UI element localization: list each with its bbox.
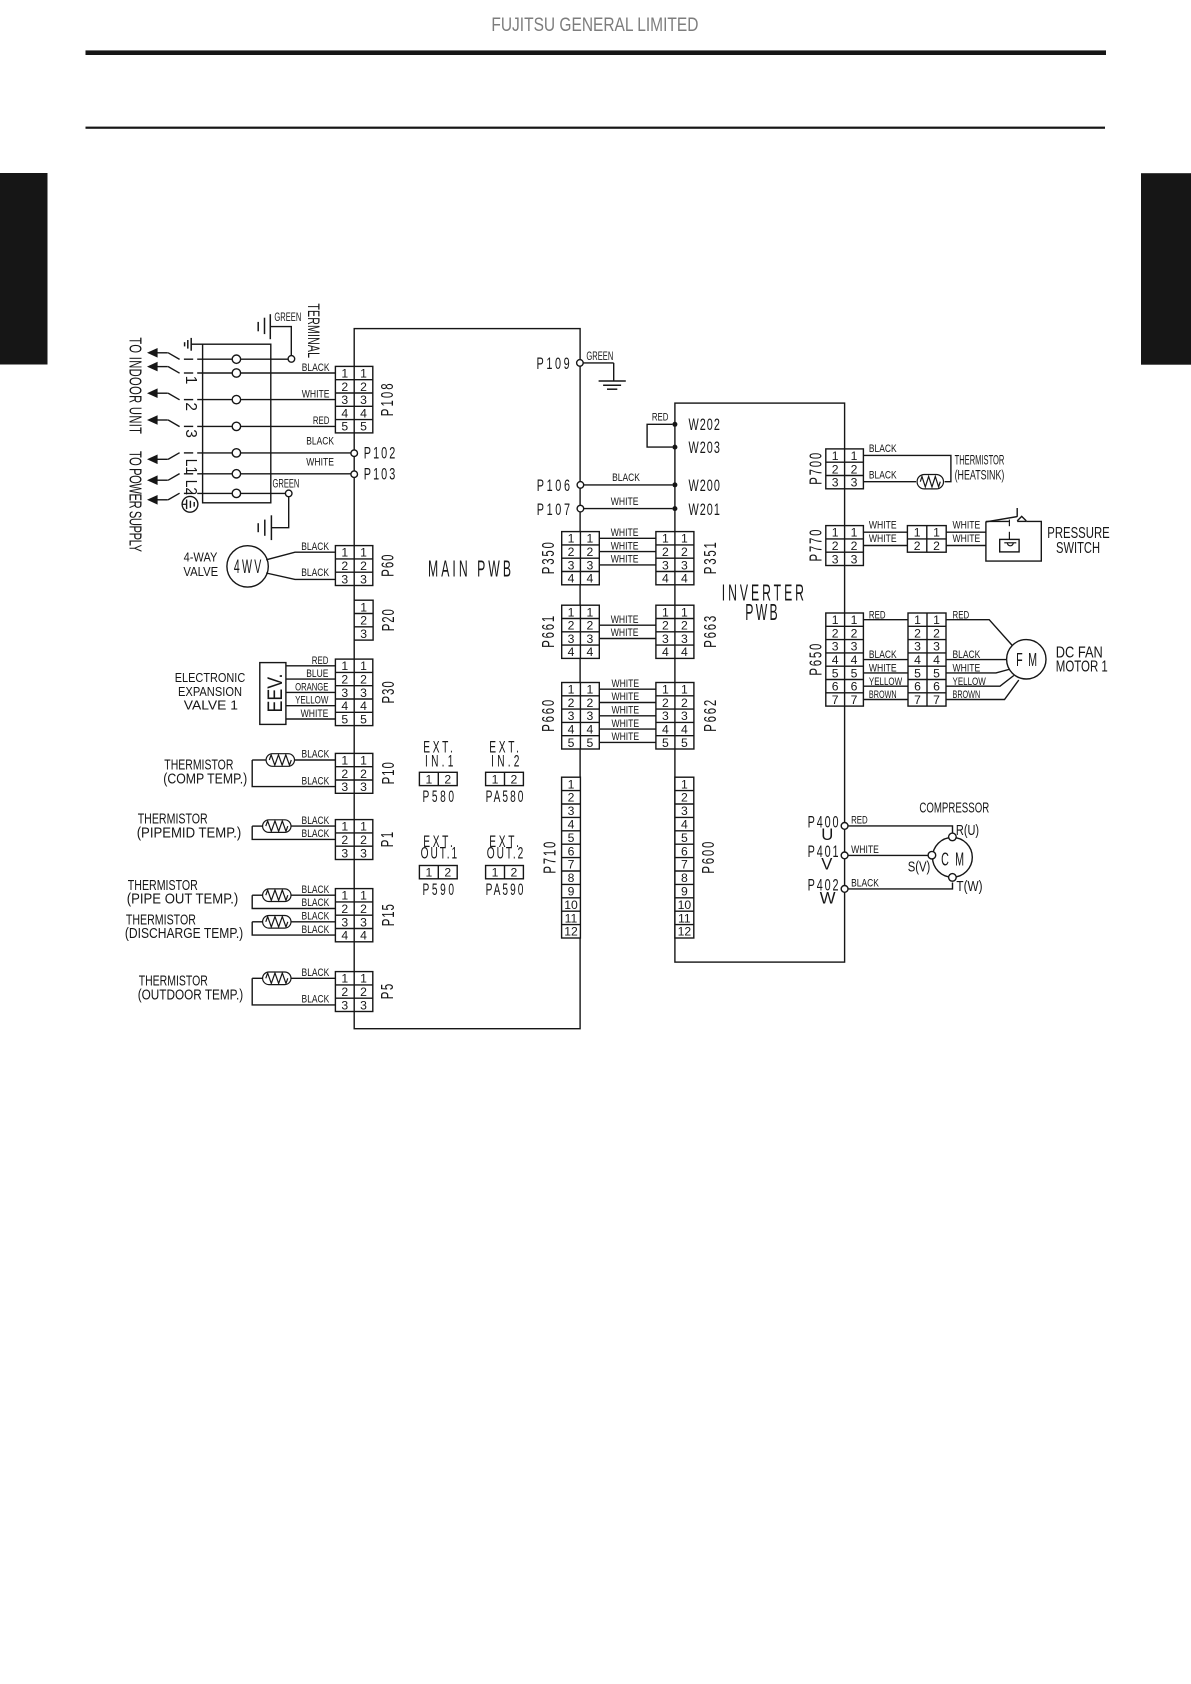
svg-text:2: 2: [586, 545, 593, 559]
INVERTER PWB board outline: [675, 403, 845, 962]
svg-text:2: 2: [341, 380, 348, 394]
svg-text:2: 2: [444, 772, 451, 786]
svg-text:P30: P30: [380, 681, 399, 703]
svg-text:7: 7: [832, 693, 839, 707]
svg-text:T(W): T(W): [956, 879, 982, 895]
svg-text:RED: RED: [652, 412, 669, 424]
svg-text:WHITE: WHITE: [869, 533, 897, 545]
svg-text:THERMISTOR: THERMISTOR: [955, 451, 1005, 467]
svg-text:VALVE: VALVE: [183, 565, 218, 579]
wires P350 to P351 WHITE x3: [599, 537, 656, 539]
svg-text:3: 3: [341, 846, 348, 860]
jumper wire RED W202-W203: [647, 424, 672, 447]
svg-text:2: 2: [832, 626, 839, 640]
svg-text:5: 5: [681, 831, 688, 845]
wire P107 to W201 WHITE: [584, 508, 673, 510]
connector P662: [656, 683, 694, 750]
svg-text:WHITE: WHITE: [953, 663, 981, 675]
node W201: [672, 506, 677, 511]
svg-text:2: 2: [832, 462, 839, 476]
svg-text:4: 4: [568, 722, 575, 736]
svg-text:1: 1: [851, 449, 858, 463]
svg-text:3: 3: [832, 476, 839, 490]
earth symbol bottom GREEN: [270, 515, 272, 540]
svg-text:3: 3: [568, 558, 575, 572]
svg-text:FUJITSU GENERAL LIMITED: FUJITSU GENERAL LIMITED: [491, 15, 698, 36]
svg-text:WHITE: WHITE: [611, 718, 639, 730]
svg-text:2: 2: [341, 559, 348, 573]
svg-text:1: 1: [341, 820, 348, 834]
svg-text:2: 2: [341, 672, 348, 686]
svg-text:7: 7: [568, 858, 575, 872]
svg-text:WHITE: WHITE: [611, 731, 639, 743]
node P401 V: [841, 852, 848, 859]
svg-text:2: 2: [360, 985, 367, 999]
thermistor (PIPE OUT TEMP.) circuit: [291, 894, 335, 896]
svg-text:W: W: [820, 888, 836, 907]
svg-text:1: 1: [360, 546, 367, 560]
svg-text:2: 2: [933, 539, 940, 553]
svg-text:1: 1: [341, 753, 348, 767]
svg-text:1: 1: [586, 532, 593, 546]
svg-text:5: 5: [832, 666, 839, 680]
svg-text:1: 1: [182, 376, 199, 385]
svg-text:BLACK: BLACK: [869, 469, 897, 481]
connector P663: [656, 605, 694, 659]
svg-text:SWITCH: SWITCH: [1056, 540, 1100, 557]
svg-text:MOTOR 1: MOTOR 1: [1056, 659, 1108, 676]
svg-text:7: 7: [681, 858, 688, 872]
svg-text:WHITE: WHITE: [611, 705, 639, 717]
svg-text:1: 1: [681, 532, 688, 546]
svg-text:2: 2: [360, 833, 367, 847]
svg-text:10: 10: [678, 898, 692, 912]
svg-text:4: 4: [662, 645, 669, 659]
svg-text:1: 1: [360, 889, 367, 903]
svg-text:6: 6: [851, 680, 858, 694]
svg-text:L2: L2: [182, 480, 199, 495]
svg-text:1: 1: [832, 449, 839, 463]
svg-text:2: 2: [511, 772, 518, 786]
svg-text:3: 3: [851, 552, 858, 566]
svg-text:2: 2: [662, 545, 669, 559]
connector P770: [826, 526, 864, 567]
svg-text:1: 1: [681, 777, 688, 791]
thermistor (PIPEMID TEMP.) circuit: [291, 825, 335, 827]
svg-text:WHITE: WHITE: [611, 614, 639, 626]
svg-text:3: 3: [341, 915, 348, 929]
svg-text:BLACK: BLACK: [302, 911, 330, 923]
wire terminal row earth-top to GREEN circle: [184, 358, 193, 360]
svg-text:2: 2: [851, 462, 858, 476]
svg-text:10: 10: [564, 898, 578, 912]
svg-text:4: 4: [914, 653, 921, 667]
svg-text:RED: RED: [953, 609, 970, 621]
svg-text:5: 5: [681, 736, 688, 750]
svg-text:GREEN: GREEN: [273, 478, 300, 490]
svg-text:6: 6: [568, 844, 575, 858]
svg-text:3: 3: [662, 632, 669, 646]
svg-text:1: 1: [360, 600, 367, 614]
svg-text:2: 2: [832, 539, 839, 553]
svg-text:V: V: [821, 854, 833, 873]
wires EEV to P30 pins 1-5: [286, 665, 336, 667]
svg-text:2: 2: [568, 696, 575, 710]
svg-text:3: 3: [341, 780, 348, 794]
svg-text:1: 1: [914, 613, 921, 627]
svg-text:3: 3: [933, 640, 940, 654]
svg-text:1: 1: [851, 613, 858, 627]
svg-text:(DISCHARGE TEMP.): (DISCHARGE TEMP.): [125, 926, 243, 942]
svg-text:5: 5: [568, 736, 575, 750]
wires P770 to pressure switch WHITE x2: [863, 531, 907, 533]
wires inline connector to FM: [946, 620, 1012, 646]
svg-text:BLACK: BLACK: [869, 443, 897, 455]
svg-text:WHITE: WHITE: [611, 678, 639, 690]
thermistor (DISCHARGE TEMP.) circuit: [291, 921, 335, 923]
svg-text:ELECTRONIC: ELECTRONIC: [175, 671, 246, 685]
svg-text:(COMP TEMP.): (COMP TEMP.): [163, 771, 247, 787]
svg-text:3: 3: [681, 558, 688, 572]
connector P5: [335, 972, 372, 1013]
svg-text:1: 1: [933, 526, 940, 540]
svg-text:1: 1: [341, 366, 348, 380]
connector P660: [562, 683, 600, 750]
svg-text:3: 3: [568, 804, 575, 818]
svg-text:8: 8: [681, 871, 688, 885]
svg-text:5: 5: [914, 666, 921, 680]
svg-text:4: 4: [851, 653, 858, 667]
wire P700 pin3 BLACK to heatsink thermistor: [863, 481, 916, 483]
svg-text:12: 12: [564, 925, 578, 939]
svg-text:1: 1: [662, 683, 669, 697]
svg-text:3: 3: [832, 552, 839, 566]
terminal block TERMINAL: [203, 344, 271, 503]
svg-text:3: 3: [182, 429, 199, 438]
terminal circles: [232, 355, 240, 363]
svg-text:6: 6: [681, 844, 688, 858]
connector P60: [335, 546, 372, 587]
svg-text:2: 2: [341, 985, 348, 999]
svg-text:(OUTDOOR TEMP.): (OUTDOOR TEMP.): [138, 987, 244, 1003]
svg-text:BLACK: BLACK: [302, 897, 330, 909]
svg-text:1: 1: [832, 613, 839, 627]
wire terminal row 2 to P108 pin3 WHITE: [184, 399, 193, 401]
svg-text:2: 2: [851, 539, 858, 553]
node P400 U: [841, 823, 848, 830]
svg-text:4: 4: [568, 645, 575, 659]
svg-text:BROWN: BROWN: [869, 689, 897, 701]
svg-text:3: 3: [360, 915, 367, 929]
svg-text:1: 1: [425, 772, 432, 786]
svg-text:2: 2: [341, 902, 348, 916]
node W203: [672, 445, 677, 450]
svg-text:2: 2: [914, 539, 921, 553]
svg-text:3: 3: [360, 780, 367, 794]
wire P402 BLACK to T(W): [849, 883, 953, 889]
compressor terminal R(U): [949, 833, 957, 841]
svg-text:4: 4: [568, 572, 575, 586]
pressure switch symbol: [986, 508, 1041, 561]
svg-text:7: 7: [933, 693, 940, 707]
thermistor (COMP TEMP.) circuit: [295, 759, 336, 761]
thermistor (OUTDOOR TEMP.) circuit: [291, 977, 335, 979]
svg-text:2: 2: [568, 545, 575, 559]
connector P30: [335, 659, 372, 726]
svg-text:BLACK: BLACK: [302, 828, 330, 840]
node W200: [672, 482, 677, 487]
svg-text:8: 8: [568, 871, 575, 885]
wire terminal row 3 to P108 pin5 RED: [184, 425, 193, 427]
node P402 W: [841, 886, 848, 893]
svg-text:P60: P60: [379, 555, 398, 577]
svg-text:GREEN: GREEN: [274, 312, 301, 324]
wire 4WV to P60 pin3 BLACK: [266, 573, 335, 579]
svg-text:WHITE: WHITE: [611, 540, 639, 552]
connector P661: [562, 605, 600, 659]
svg-text:WHITE: WHITE: [306, 457, 334, 469]
svg-text:3: 3: [568, 709, 575, 723]
svg-text:7: 7: [851, 693, 858, 707]
wire P400 RED to R(U): [849, 826, 953, 834]
svg-text:GREEN: GREEN: [586, 351, 613, 363]
svg-text:BLUE: BLUE: [306, 668, 328, 680]
svg-text:P15: P15: [380, 904, 399, 926]
earth symbol top GREEN: [269, 314, 271, 339]
svg-text:6: 6: [914, 680, 921, 694]
svg-text:1: 1: [492, 866, 499, 880]
svg-text:WHITE: WHITE: [869, 520, 897, 532]
svg-text:3: 3: [360, 572, 367, 586]
svg-text:3: 3: [851, 476, 858, 490]
svg-text:1: 1: [851, 526, 858, 540]
svg-text:BLACK: BLACK: [302, 815, 330, 827]
svg-text:WHITE: WHITE: [869, 663, 897, 675]
svg-text:3: 3: [586, 709, 593, 723]
switch blades and arrows TO POWER SUPPLY: [147, 455, 168, 465]
svg-text:3: 3: [586, 632, 593, 646]
svg-text:3: 3: [586, 558, 593, 572]
svg-text:P10: P10: [380, 762, 399, 784]
svg-text:TO POWER SUPPLY: TO POWER SUPPLY: [124, 451, 144, 552]
svg-text:2: 2: [662, 619, 669, 633]
svg-text:WHITE: WHITE: [611, 627, 639, 639]
svg-text:9: 9: [568, 885, 575, 899]
svg-text:4: 4: [360, 406, 367, 420]
svg-text:3: 3: [360, 998, 367, 1012]
svg-text:3: 3: [832, 640, 839, 654]
switch blades and arrows TO INDOOR UNIT: [147, 348, 168, 358]
svg-text:WHITE: WHITE: [851, 844, 879, 856]
svg-text:(HEATSINK): (HEATSINK): [955, 467, 1005, 483]
svg-text:1: 1: [341, 659, 348, 673]
header thick rule: [86, 50, 1107, 55]
svg-text:1: 1: [914, 526, 921, 540]
svg-text:2: 2: [360, 672, 367, 686]
svg-text:BLACK: BLACK: [612, 472, 640, 484]
svg-text:3: 3: [681, 804, 688, 818]
wire P401 WHITE to S(V): [849, 854, 929, 856]
svg-text:WHITE: WHITE: [611, 554, 639, 566]
wire 4WV to P60 pin1 BLACK: [266, 552, 335, 560]
svg-text:4: 4: [341, 406, 348, 420]
svg-text:WHITE: WHITE: [611, 496, 639, 508]
svg-text:3: 3: [360, 627, 367, 641]
svg-text:2: 2: [341, 767, 348, 781]
svg-text:3: 3: [341, 998, 348, 1012]
svg-text:L1: L1: [182, 459, 199, 474]
svg-text:5: 5: [360, 712, 367, 726]
svg-text:2: 2: [360, 767, 367, 781]
svg-text:R(U): R(U): [956, 823, 979, 839]
svg-text:2: 2: [444, 866, 451, 880]
svg-text:1: 1: [360, 820, 367, 834]
svg-text:BLACK: BLACK: [851, 877, 879, 889]
svg-text:4: 4: [341, 699, 348, 713]
svg-text:VALVE 1: VALVE 1: [184, 699, 238, 713]
svg-text:1: 1: [360, 366, 367, 380]
svg-text:5: 5: [851, 666, 858, 680]
svg-text:4: 4: [681, 572, 688, 586]
svg-text:WHITE: WHITE: [611, 691, 639, 703]
svg-text:YELLOW: YELLOW: [953, 676, 987, 688]
svg-text:S(V): S(V): [908, 859, 931, 875]
node P102: [351, 450, 358, 457]
svg-text:W202: W202: [689, 415, 721, 434]
svg-text:BLACK: BLACK: [869, 649, 897, 661]
wire terminal row 1 to P108 pin1 BLACK: [184, 372, 193, 374]
svg-text:5: 5: [586, 736, 593, 750]
svg-text:1: 1: [425, 866, 432, 880]
connector P1: [335, 820, 372, 861]
svg-text:4: 4: [681, 818, 688, 832]
svg-text:5: 5: [662, 736, 669, 750]
svg-text:BLACK: BLACK: [302, 967, 330, 979]
svg-text:(PIPE OUT TEMP.): (PIPE OUT TEMP.): [127, 892, 239, 908]
wire terminal row L1 to P102 BLACK: [184, 452, 193, 454]
svg-text:2: 2: [933, 626, 940, 640]
svg-text:3: 3: [341, 393, 348, 407]
svg-text:BLACK: BLACK: [302, 362, 330, 374]
svg-text:1: 1: [568, 777, 575, 791]
svg-text:2: 2: [681, 545, 688, 559]
svg-text:4: 4: [662, 572, 669, 586]
svg-text:4: 4: [586, 645, 593, 659]
svg-text:RED: RED: [312, 655, 329, 667]
svg-text:6: 6: [933, 680, 940, 694]
svg-text:4: 4: [933, 653, 940, 667]
svg-text:4: 4: [681, 722, 688, 736]
svg-text:PA580: PA580: [486, 787, 524, 805]
wire terminal row earth-bottom to GREEN circle: [184, 492, 193, 494]
svg-text:3: 3: [914, 640, 921, 654]
svg-text:BROWN: BROWN: [953, 689, 981, 701]
svg-text:BLACK: BLACK: [302, 994, 330, 1006]
svg-text:1: 1: [586, 683, 593, 697]
svg-text:BLACK: BLACK: [302, 884, 330, 896]
svg-text:2: 2: [568, 619, 575, 633]
fan motor FM DC FAN MOTOR 1: [1007, 640, 1046, 679]
compressor motor CM: [933, 837, 973, 877]
svg-text:1: 1: [662, 605, 669, 619]
svg-text:2: 2: [341, 833, 348, 847]
svg-text:1: 1: [341, 889, 348, 903]
svg-text:WHITE: WHITE: [953, 520, 981, 532]
svg-text:BLACK: BLACK: [302, 924, 330, 936]
svg-text:4: 4: [586, 722, 593, 736]
wire P106 to W200 BLACK: [584, 484, 673, 486]
svg-text:2: 2: [851, 626, 858, 640]
connector P650: [826, 613, 864, 707]
inline connector pressure switch: [907, 526, 946, 553]
svg-text:W203: W203: [689, 437, 721, 456]
connector P710: [562, 777, 581, 939]
svg-text:EEV.: EEV.: [263, 674, 287, 713]
svg-text:RED: RED: [869, 609, 886, 621]
svg-text:4: 4: [832, 653, 839, 667]
svg-text:3: 3: [360, 846, 367, 860]
svg-text:4WV: 4WV: [234, 557, 262, 578]
svg-text:2: 2: [662, 696, 669, 710]
svg-text:3: 3: [568, 632, 575, 646]
svg-text:11: 11: [565, 911, 578, 925]
svg-text:1: 1: [360, 753, 367, 767]
svg-text:BLACK: BLACK: [953, 649, 981, 661]
svg-text:2: 2: [360, 380, 367, 394]
electronic expansion valve EEV box: [260, 663, 286, 725]
svg-text:WHITE: WHITE: [302, 388, 330, 400]
svg-text:5: 5: [360, 420, 367, 434]
svg-text:3: 3: [360, 393, 367, 407]
svg-text:3: 3: [662, 558, 669, 572]
svg-text:PA590: PA590: [486, 880, 524, 898]
node P106: [577, 482, 584, 489]
svg-text:2: 2: [681, 791, 688, 805]
svg-text:1: 1: [662, 532, 669, 546]
protective earth circle symbol at terminal box bottom: [182, 496, 198, 512]
svg-text:1: 1: [492, 772, 499, 786]
node GREEN terminal bottom circle: [285, 490, 292, 497]
node P107: [577, 505, 584, 512]
svg-text:RED: RED: [851, 814, 868, 826]
svg-text:4: 4: [360, 929, 367, 943]
svg-text:1: 1: [568, 532, 575, 546]
svg-text:2: 2: [182, 402, 199, 411]
thermistor (HEATSINK): [917, 475, 943, 489]
svg-text:1: 1: [586, 605, 593, 619]
svg-text:2: 2: [586, 696, 593, 710]
svg-text:(PIPEMID TEMP.): (PIPEMID TEMP.): [137, 826, 242, 842]
svg-text:3: 3: [681, 709, 688, 723]
svg-text:P20: P20: [380, 609, 399, 631]
svg-text:W200: W200: [689, 476, 721, 495]
svg-text:11: 11: [678, 911, 691, 925]
connector P20: [354, 600, 373, 641]
svg-text:5: 5: [933, 666, 940, 680]
svg-text:1: 1: [568, 605, 575, 619]
svg-text:EXPANSION: EXPANSION: [178, 685, 242, 699]
svg-text:5: 5: [568, 831, 575, 845]
svg-text:6: 6: [832, 680, 839, 694]
connector P351: [656, 532, 694, 586]
svg-text:TERMINAL: TERMINAL: [304, 303, 323, 358]
svg-text:1: 1: [681, 605, 688, 619]
wire terminal row L2 to P103 WHITE: [184, 473, 193, 475]
header thin rule: [86, 127, 1106, 129]
svg-text:2: 2: [360, 902, 367, 916]
svg-text:3: 3: [360, 686, 367, 700]
svg-text:1: 1: [341, 972, 348, 986]
